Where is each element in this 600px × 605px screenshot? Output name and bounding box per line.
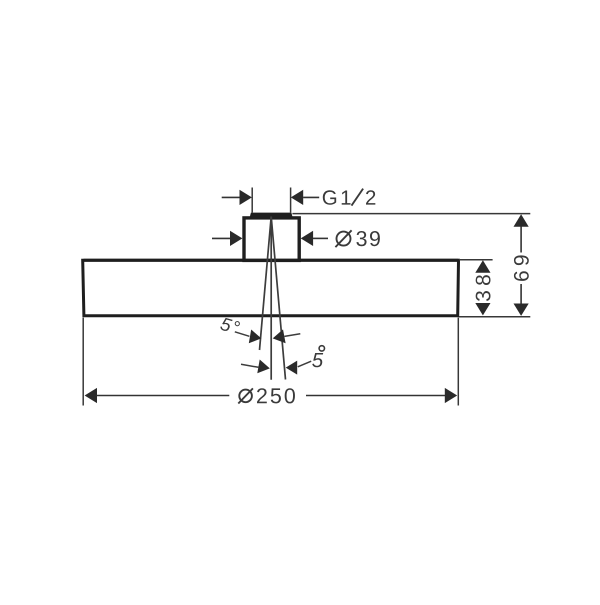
69 label rotated [514, 255, 529, 280]
38 dimension arrow up [475, 260, 490, 272]
38 label rotated [476, 275, 491, 301]
connector block [244, 218, 299, 261]
diameter 39 label text [356, 231, 379, 246]
spray axis center line [270, 217, 272, 380]
38 extension line top [459, 259, 493, 261]
69 dimension arrow up [514, 214, 529, 252]
G1/2 label [323, 189, 376, 206]
69 extension line top [292, 213, 530, 215]
disc top edge over block [84, 259, 459, 262]
G1/2 extension line right [290, 188, 292, 213]
thread cap [250, 213, 293, 217]
diameter 250 extension line left [82, 318, 84, 406]
G1/2 extension line left [251, 188, 253, 213]
diameter 250 label diameter symbol [238, 388, 253, 403]
diameter 39 label diameter symbol [335, 230, 351, 247]
38 dimension arrow down [475, 303, 490, 315]
5 deg leader upper left [235, 330, 261, 344]
shower head disc body [83, 260, 459, 316]
5 deg label lower right [312, 346, 324, 368]
diameter 250 label text [257, 388, 295, 403]
69 dimension arrow down [514, 284, 529, 316]
diameter 250 dimension line right segment with arrow [306, 388, 457, 403]
diameter 250 extension line right [457, 318, 459, 406]
bottom extension line shared [459, 316, 530, 318]
diameter 39 dimension arrow right [301, 231, 328, 246]
diameter 250 dimension line left segment with arrow [85, 388, 230, 403]
5 deg leader lower left [241, 360, 270, 374]
5 deg arrow upper right [273, 329, 301, 343]
diameter 39 dimension arrow left [212, 231, 242, 246]
spray line right 5 deg [271, 217, 285, 380]
spray line left 5 deg [260, 217, 272, 351]
G1/2 dimension arrow left [222, 190, 252, 205]
5 deg arrow lower right [286, 361, 312, 375]
5 deg label upper left [220, 317, 241, 335]
G1/2 dimension arrow right [291, 190, 319, 205]
